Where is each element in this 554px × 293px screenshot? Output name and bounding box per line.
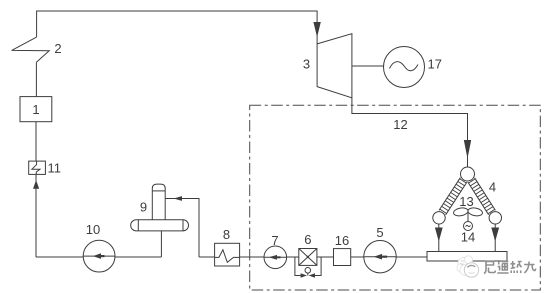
svg-text:8: 8: [223, 227, 230, 242]
svg-text:2: 2: [54, 41, 61, 56]
fan motor 14: [464, 222, 473, 231]
svg-text:6: 6: [304, 232, 311, 247]
condenser right lower circle: [489, 212, 501, 224]
svg-text:14: 14: [461, 230, 475, 245]
wire: turbine shaft to generator: [352, 65, 384, 67]
svg-text:12: 12: [393, 117, 407, 132]
wire: into heat exchanger 8: [199, 256, 215, 258]
generator 17: [384, 47, 425, 88]
wire: break to box 1: [35, 62, 37, 96]
pump 7: [264, 246, 287, 269]
boundary: dash-dot battery limit box: [250, 105, 541, 290]
reducing valve 11: [29, 161, 46, 174]
deaerator 9: [131, 220, 189, 231]
svg-text:16: 16: [335, 233, 349, 248]
filter 6: [299, 249, 317, 266]
wire: riser to deaerator tank: [160, 231, 162, 257]
wire: box 1 to valve 11: [35, 122, 37, 161]
wire: turbine exhaust line 12 to condenser: [352, 98, 468, 167]
air-cooled condenser 4 : left finned band: [439, 178, 467, 215]
pump 10: [83, 240, 115, 272]
svg-text:13: 13: [459, 194, 473, 209]
wire: right condensate drop with arrow: [494, 224, 496, 252]
watermark text 尼通热力: [484, 261, 536, 274]
fan 13: [453, 207, 483, 217]
wire: bottom-left pipe: [36, 256, 161, 258]
steam turbine 3: [317, 34, 352, 98]
wire: left condensate drop with arrow: [438, 224, 440, 252]
svg-text:17: 17: [428, 57, 442, 72]
condensate collection tank: [427, 252, 507, 262]
boiler box 1: [20, 97, 52, 122]
break symbol (pipeline continuation): [12, 37, 50, 62]
condenser left lower circle: [433, 212, 445, 224]
tank/box 16: [334, 249, 351, 266]
svg-text:1: 1: [32, 102, 39, 117]
svg-text:7: 7: [271, 233, 278, 248]
svg-text:3: 3: [303, 57, 310, 72]
watermark logo icon: [457, 256, 479, 277]
pump 5: [364, 241, 396, 273]
drain loop with valve under filter 6: [295, 257, 301, 276]
wire: heater outlet steam to deaerator with arrow: [165, 199, 199, 258]
condenser top header circle: [461, 167, 475, 181]
wire: main steam line from break to turbine inlet: [37, 11, 318, 44]
fan shaft wire: [467, 213, 469, 222]
svg-text:10: 10: [86, 222, 100, 237]
svg-text:11: 11: [48, 161, 62, 176]
wire: feed line up into valve 11 with arrow: [35, 174, 37, 257]
wire: condensate main line to tank: [240, 256, 427, 258]
svg-text:4: 4: [489, 180, 496, 195]
arrow: steam into turbine: [313, 22, 320, 37]
svg-text:5: 5: [376, 225, 383, 240]
heat exchanger 8: [215, 243, 240, 266]
air-cooled condenser 4 : right finned band: [468, 178, 496, 215]
svg-text:9: 9: [140, 200, 147, 215]
